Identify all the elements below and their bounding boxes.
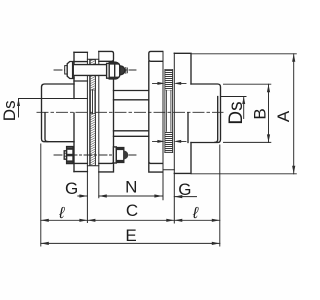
svg-text:G: G (65, 179, 78, 198)
svg-text:Ds: Ds (0, 100, 19, 121)
left disc pack hatching (90, 60, 95, 65)
top bolt washer (107, 63, 110, 78)
svg-text:E: E (125, 226, 136, 245)
dimension A line (293, 54, 295, 174)
right disc pack (162, 51, 164, 199)
svg-text:Ds: Ds (226, 101, 247, 124)
dimension B extension lines (224, 84, 271, 142)
bottom bolt axis (54, 154, 136, 156)
dimension extension verticals (41, 144, 220, 246)
right hub chamfer inner lines (188, 97, 218, 143)
right flange (174, 53, 191, 173)
left flange (73, 52, 75, 171)
svg-text:C: C (126, 201, 138, 220)
svg-text:ℓ: ℓ (192, 205, 199, 222)
bottom bolt nut (left, side view with threads) (67, 147, 73, 164)
G N G dimension row (78, 195, 197, 198)
svg-text:ℓ: ℓ (58, 205, 65, 222)
dimension Ds left line (18, 99, 20, 118)
dimension Ds right line (243, 97, 245, 119)
dimension A extension lines (191, 54, 296, 174)
right hub bore extension line (221, 96, 246, 98)
spacer right flange (149, 51, 163, 61)
left hub body (42, 84, 75, 142)
svg-text:G: G (178, 180, 191, 199)
spacer tube walls (114, 91, 149, 137)
right bolt axis marks (153, 82, 187, 84)
bottom bolt head (right) (116, 148, 124, 163)
dimension B line (268, 84, 270, 142)
right hub body (191, 84, 221, 143)
svg-text:N: N (125, 178, 137, 197)
spacer left flange (99, 51, 114, 61)
top bolt nut (109, 62, 120, 79)
svg-text:B: B (250, 108, 269, 119)
top bolt body (74, 65, 107, 76)
E dimension row (41, 242, 220, 244)
l C l dimension row (41, 219, 220, 221)
left disc pack laminations (86, 53, 88, 223)
top bolt thread tip (120, 66, 125, 75)
svg-text:A: A (274, 110, 293, 122)
bottom bolt washer (right) (113, 147, 116, 163)
top bolt axis (54, 69, 136, 71)
main centerline (37, 111, 223, 113)
top bolt head (67, 62, 74, 79)
left hub bore line / Ds leader (19, 98, 88, 100)
left hub end chamfer (lower half inner line) (45, 113, 48, 142)
top bolt head spring washer (65, 66, 68, 74)
